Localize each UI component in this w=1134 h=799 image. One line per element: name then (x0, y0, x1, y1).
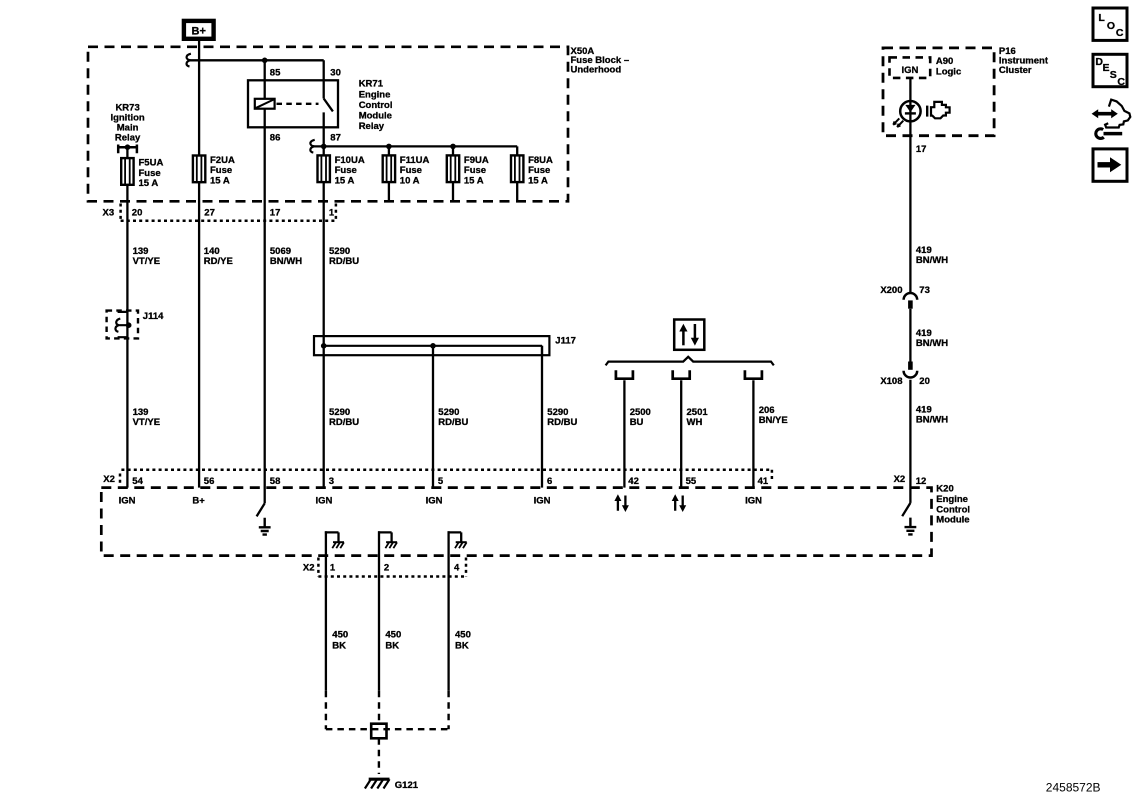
svg-text:IGN: IGN (745, 496, 762, 507)
svg-text:87: 87 (330, 133, 341, 144)
svg-text:X2: X2 (303, 563, 315, 574)
svg-text:27: 27 (204, 207, 215, 218)
svg-text:6: 6 (547, 476, 552, 487)
svg-text:IGN: IGN (119, 496, 136, 507)
svg-text:X2: X2 (894, 474, 906, 485)
svg-text:F11UA: F11UA (400, 155, 430, 166)
svg-text:A90: A90 (936, 56, 953, 67)
svg-text:F2UA: F2UA (210, 155, 235, 166)
svg-text:BU: BU (630, 417, 644, 428)
svg-text:Relay: Relay (115, 133, 141, 144)
svg-text:Engine: Engine (359, 89, 391, 100)
svg-text:1: 1 (329, 207, 335, 218)
svg-text:Control: Control (359, 100, 393, 111)
svg-text:F8UA: F8UA (528, 155, 553, 166)
svg-text:RD/BU: RD/BU (438, 417, 468, 428)
svg-text:B+: B+ (192, 496, 205, 507)
svg-text:F5UA: F5UA (139, 157, 164, 168)
svg-text:15 A: 15 A (210, 176, 230, 187)
svg-text:Module: Module (936, 515, 969, 526)
svg-text:C: C (1116, 27, 1124, 39)
svg-text:IGN: IGN (315, 496, 332, 507)
svg-text:12: 12 (916, 476, 927, 487)
svg-text:IGN: IGN (426, 496, 443, 507)
svg-text:55: 55 (686, 476, 697, 487)
svg-text:RD/YE: RD/YE (204, 256, 233, 267)
svg-text:Fuse: Fuse (400, 165, 422, 176)
svg-text:X3: X3 (103, 207, 115, 218)
svg-text:B+: B+ (192, 26, 206, 38)
svg-text:3: 3 (329, 476, 334, 487)
svg-text:VT/YE: VT/YE (133, 256, 160, 267)
svg-text:RD/BU: RD/BU (329, 417, 359, 428)
svg-text:F9UA: F9UA (464, 155, 489, 166)
svg-text:Fuse: Fuse (335, 165, 357, 176)
svg-text:30: 30 (330, 68, 341, 79)
svg-text:BK: BK (332, 640, 346, 651)
svg-text:E: E (1103, 62, 1110, 74)
svg-text:17: 17 (916, 144, 927, 155)
svg-text:4: 4 (454, 563, 460, 574)
svg-text:5: 5 (438, 476, 444, 487)
svg-text:X2: X2 (103, 474, 115, 485)
svg-text:F10UA: F10UA (335, 155, 365, 166)
svg-text:L: L (1098, 12, 1105, 24)
svg-text:2: 2 (384, 563, 389, 574)
svg-text:Engine: Engine (936, 494, 968, 505)
svg-text:RD/BU: RD/BU (547, 417, 577, 428)
svg-text:17: 17 (270, 207, 281, 218)
svg-text:BN/WH: BN/WH (270, 256, 302, 267)
svg-text:X200: X200 (880, 285, 902, 296)
svg-text:Fuse: Fuse (210, 165, 232, 176)
svg-text:KR71: KR71 (359, 79, 384, 90)
svg-text:450: 450 (332, 629, 348, 640)
svg-text:IGN: IGN (901, 65, 918, 76)
svg-text:2458572B: 2458572B (1046, 780, 1101, 794)
svg-text:K20: K20 (936, 484, 953, 495)
svg-text:C: C (1117, 76, 1125, 88)
svg-text:20: 20 (132, 207, 143, 218)
svg-text:41: 41 (758, 476, 769, 487)
svg-text:15 A: 15 A (335, 176, 355, 187)
svg-text:G121: G121 (395, 780, 419, 791)
svg-text:VT/YE: VT/YE (133, 417, 160, 428)
svg-text:Fuse: Fuse (139, 168, 161, 179)
svg-text:15 A: 15 A (139, 178, 159, 189)
svg-text:73: 73 (919, 285, 930, 296)
svg-text:S: S (1110, 69, 1117, 81)
svg-text:10 A: 10 A (400, 176, 420, 187)
svg-text:85: 85 (270, 68, 281, 79)
svg-text:Logic: Logic (936, 67, 961, 78)
svg-text:15 A: 15 A (464, 176, 484, 187)
svg-text:J114: J114 (143, 311, 164, 322)
svg-text:BN/WH: BN/WH (916, 255, 948, 266)
svg-text:Underhood: Underhood (571, 65, 622, 76)
svg-text:BN/WH: BN/WH (916, 338, 948, 349)
svg-text:450: 450 (455, 629, 471, 640)
svg-text:IGN: IGN (534, 496, 551, 507)
svg-text:BN/YE: BN/YE (759, 415, 788, 426)
svg-text:56: 56 (204, 476, 215, 487)
svg-text:54: 54 (132, 476, 143, 487)
svg-text:86: 86 (270, 133, 281, 144)
svg-text:Fuse: Fuse (528, 165, 550, 176)
svg-text:Fuse: Fuse (464, 165, 486, 176)
svg-text:O: O (1107, 20, 1115, 32)
svg-text:BN/WH: BN/WH (916, 414, 948, 425)
svg-text:Control: Control (936, 504, 970, 515)
svg-text:58: 58 (270, 476, 281, 487)
svg-text:BK: BK (385, 640, 399, 651)
svg-text:42: 42 (628, 476, 639, 487)
svg-text:Module: Module (359, 111, 392, 122)
svg-text:WH: WH (687, 417, 703, 428)
svg-text:Cluster: Cluster (999, 65, 1032, 76)
svg-text:1: 1 (330, 563, 336, 574)
svg-text:X108: X108 (880, 376, 902, 387)
svg-text:450: 450 (385, 629, 401, 640)
svg-text:RD/BU: RD/BU (329, 256, 359, 267)
svg-text:20: 20 (919, 376, 930, 387)
svg-text:Relay: Relay (359, 121, 385, 132)
svg-text:J117: J117 (555, 336, 576, 347)
svg-text:BK: BK (455, 640, 469, 651)
svg-text:15 A: 15 A (528, 176, 548, 187)
